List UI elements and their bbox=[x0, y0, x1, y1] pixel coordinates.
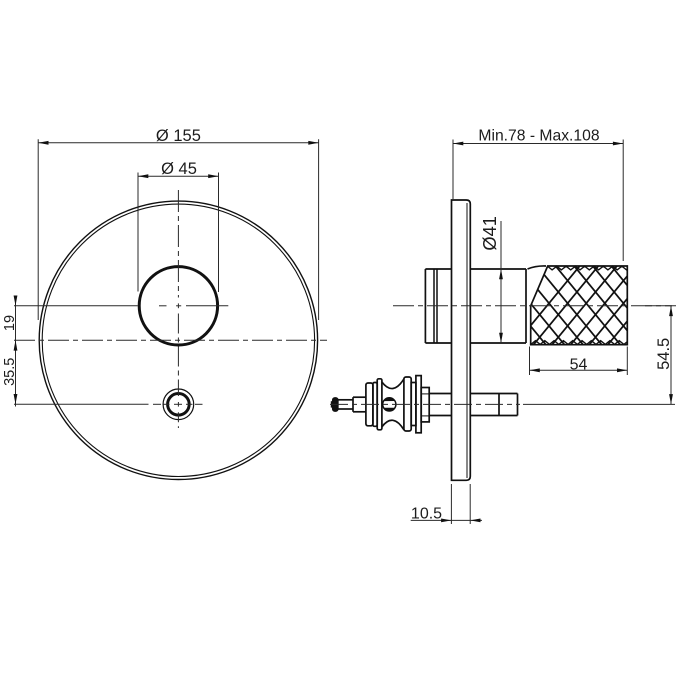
disc 1 bbox=[366, 383, 373, 426]
dimension 10.5 bbox=[411, 484, 482, 524]
disc 4 bbox=[411, 383, 416, 426]
extension line to 54.5 dim bbox=[523, 403, 675, 405]
tip nub bbox=[331, 401, 333, 407]
svg-text:19: 19 bbox=[2, 315, 18, 331]
knob center horizontal extension line bbox=[14, 305, 138, 307]
plate outer circle bbox=[39, 201, 317, 479]
disc 3 bbox=[404, 377, 411, 431]
svg-text:54: 54 bbox=[570, 357, 588, 374]
knurled handle bbox=[441, 262, 677, 349]
horizontal centerline plate (dash-dot) bbox=[14, 339, 327, 341]
diverter button inner circle bbox=[168, 394, 190, 416]
dimension D155 bbox=[38, 127, 318, 320]
vertical centerline front view bbox=[174, 190, 182, 428]
knob center cross horizontal dashes bbox=[159, 305, 167, 307]
svg-text:Ø 45: Ø 45 bbox=[161, 160, 197, 178]
dimension D45 bbox=[138, 160, 219, 292]
body cylinder bbox=[425, 269, 526, 343]
tall flange bbox=[416, 376, 421, 433]
diverter center extension line bbox=[14, 403, 149, 405]
diverter center cross dashes bbox=[153, 403, 161, 405]
svg-text:10.5: 10.5 bbox=[411, 505, 442, 522]
cartridge assembly bbox=[331, 376, 518, 433]
svg-text:35.5: 35.5 bbox=[2, 358, 18, 386]
side view axis centerline bbox=[393, 305, 672, 307]
tip cap bbox=[333, 398, 338, 411]
svg-text:Ø 155: Ø 155 bbox=[156, 127, 201, 145]
nut section bbox=[421, 388, 429, 422]
wall plate side bbox=[452, 200, 471, 480]
knurl top teeth zigzag bbox=[548, 266, 628, 270]
dimension Min.78 - Max.108 bbox=[453, 127, 623, 261]
spool concave section with ball bbox=[382, 379, 404, 389]
shaft right of plate bbox=[470, 393, 517, 395]
dimension 54 bbox=[530, 347, 628, 376]
diverter button outer circle bbox=[163, 389, 194, 420]
cartridge axis centerline bbox=[330, 403, 520, 405]
plate inner circle bbox=[42, 204, 314, 476]
disc 2 bbox=[373, 383, 377, 427]
svg-text:Min.78 - Max.108: Min.78 - Max.108 bbox=[478, 127, 599, 144]
svg-text:54.5: 54.5 bbox=[655, 338, 673, 370]
shaft to plate bbox=[429, 393, 451, 395]
dimension 54.5 bbox=[645, 306, 676, 405]
stem bbox=[338, 399, 353, 401]
dimension 19 / 35.5 vertical at left bbox=[2, 296, 18, 407]
knurl bottom teeth zigzag bbox=[531, 341, 627, 345]
dimension D41 bbox=[479, 216, 503, 343]
svg-text:Ø41: Ø41 bbox=[479, 216, 500, 251]
knob circle bbox=[139, 267, 217, 345]
